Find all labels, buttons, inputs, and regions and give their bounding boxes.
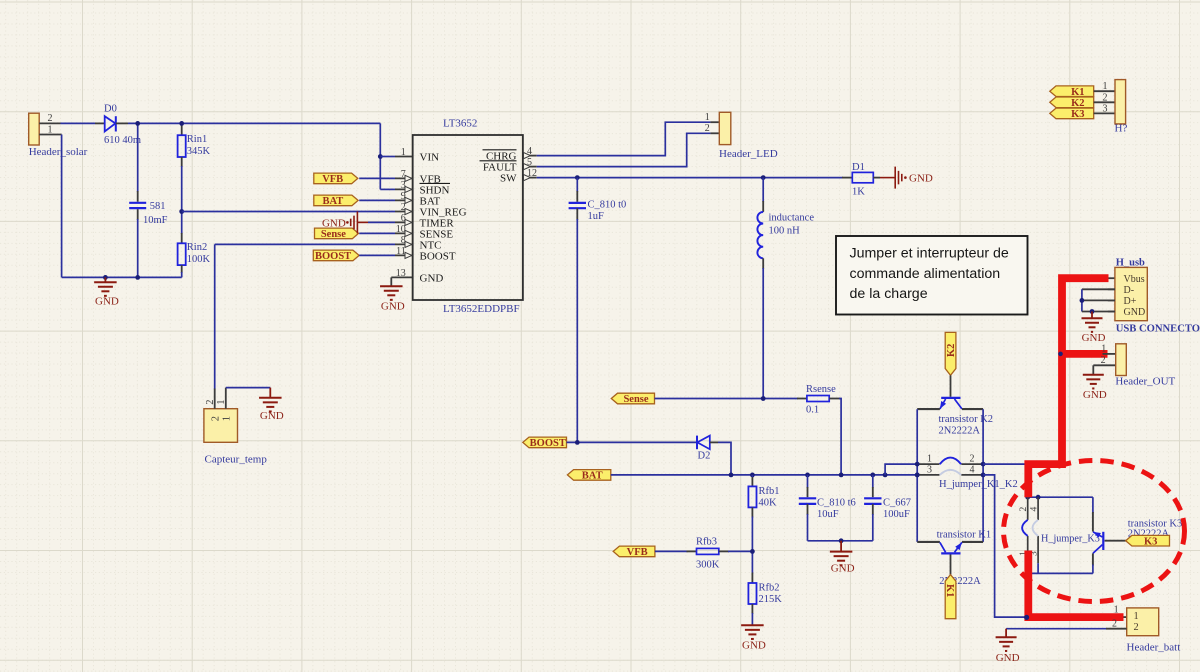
svg-text:C_667: C_667	[883, 498, 911, 509]
svg-text:C_810 t0: C_810 t0	[588, 199, 627, 210]
svg-text:GND: GND	[1124, 307, 1146, 318]
svg-text:Capteur_temp: Capteur_temp	[205, 454, 268, 466]
svg-text:2: 2	[1019, 507, 1029, 512]
svg-text:D+: D+	[1124, 296, 1137, 307]
svg-text:Rin1: Rin1	[187, 134, 207, 145]
svg-text:1: 1	[705, 112, 710, 123]
svg-text:GND: GND	[95, 296, 119, 308]
svg-text:2: 2	[970, 453, 975, 464]
svg-text:H_jumper_K1_K2: H_jumper_K1_K2	[939, 479, 1018, 490]
svg-text:3: 3	[927, 464, 932, 475]
svg-text:D1: D1	[852, 162, 865, 173]
svg-text:GND: GND	[260, 410, 284, 422]
svg-text:inductance: inductance	[769, 213, 815, 224]
svg-text:11: 11	[396, 246, 406, 257]
svg-text:transistor K2: transistor K2	[939, 414, 994, 425]
svg-text:VIN: VIN	[420, 151, 440, 163]
svg-text:Vbus: Vbus	[1124, 274, 1145, 285]
svg-text:100 nH: 100 nH	[769, 226, 801, 237]
svg-text:GND: GND	[996, 652, 1020, 664]
svg-text:Jumper et interrupteur de: Jumper et interrupteur de	[850, 246, 1009, 262]
svg-text:0.1: 0.1	[806, 405, 819, 416]
svg-text:C_810 t6: C_810 t6	[817, 498, 856, 509]
svg-text:GND: GND	[322, 218, 346, 230]
svg-text:GND: GND	[1083, 389, 1107, 401]
svg-text:1: 1	[927, 453, 932, 464]
svg-text:610 40m: 610 40m	[104, 135, 141, 146]
svg-text:H_usb: H_usb	[1116, 257, 1145, 268]
svg-text:40K: 40K	[759, 497, 778, 508]
svg-text:LT3652: LT3652	[443, 118, 477, 130]
svg-text:VFB: VFB	[627, 547, 648, 558]
svg-text:K1: K1	[1071, 87, 1084, 98]
svg-text:D2: D2	[698, 451, 711, 462]
svg-text:Header_solar: Header_solar	[29, 146, 88, 158]
svg-text:Rfb3: Rfb3	[696, 537, 717, 548]
svg-text:K2: K2	[1071, 98, 1084, 109]
svg-text:100uF: 100uF	[883, 509, 910, 520]
svg-text:2: 2	[1103, 92, 1108, 103]
svg-text:13: 13	[396, 268, 406, 279]
svg-text:GND: GND	[909, 173, 933, 185]
svg-text:4: 4	[1029, 507, 1039, 512]
svg-text:300K: 300K	[696, 559, 720, 570]
svg-text:1K: 1K	[852, 187, 865, 198]
svg-text:10uF: 10uF	[817, 509, 839, 520]
svg-text:2N2222A: 2N2222A	[939, 426, 981, 437]
svg-text:GND: GND	[381, 301, 405, 313]
svg-text:Rfb2: Rfb2	[759, 582, 780, 593]
svg-text:GND: GND	[420, 272, 444, 284]
svg-text:BOOST: BOOST	[530, 438, 566, 449]
svg-text:Rin2: Rin2	[187, 242, 207, 253]
svg-text:2: 2	[211, 416, 222, 421]
svg-text:10: 10	[396, 224, 406, 235]
svg-text:de la charge: de la charge	[850, 286, 928, 302]
svg-text:1uF: 1uF	[588, 211, 605, 222]
svg-text:2: 2	[205, 400, 216, 405]
svg-text:100K: 100K	[187, 254, 211, 265]
svg-text:581: 581	[150, 201, 166, 212]
svg-text:2: 2	[1134, 622, 1139, 633]
svg-text:2: 2	[1101, 355, 1106, 366]
svg-text:BOOST: BOOST	[420, 250, 456, 262]
svg-text:Header_OUT: Header_OUT	[1115, 376, 1175, 388]
svg-text:Sense: Sense	[321, 229, 346, 240]
svg-text:USB CONNECTOR: USB CONNECTOR	[1116, 324, 1200, 335]
svg-text:4: 4	[970, 464, 975, 475]
svg-text:1: 1	[216, 400, 227, 405]
svg-text:1: 1	[1101, 344, 1106, 355]
svg-text:BAT: BAT	[322, 196, 343, 207]
svg-text:SW: SW	[500, 173, 517, 185]
svg-text:H?: H?	[1115, 123, 1128, 135]
svg-text:1: 1	[1114, 605, 1119, 616]
svg-text:H_jumper_K3: H_jumper_K3	[1041, 533, 1100, 544]
svg-text:GND: GND	[742, 640, 766, 652]
svg-text:2: 2	[1112, 618, 1117, 629]
svg-text:BAT: BAT	[582, 471, 603, 482]
svg-text:K2: K2	[946, 344, 957, 357]
svg-text:Header_LED: Header_LED	[719, 148, 778, 160]
svg-text:LT3652EDDPBF: LT3652EDDPBF	[443, 303, 520, 315]
svg-text:1: 1	[222, 416, 233, 421]
svg-text:2: 2	[705, 123, 710, 134]
svg-text:D-: D-	[1124, 285, 1135, 296]
svg-text:Sense: Sense	[623, 394, 648, 405]
svg-text:transistor K1: transistor K1	[937, 530, 992, 541]
svg-text:VFB: VFB	[322, 174, 343, 185]
svg-text:1: 1	[401, 147, 406, 158]
svg-text:D0: D0	[104, 104, 117, 115]
svg-text:GND: GND	[831, 563, 855, 575]
svg-text:BOOST: BOOST	[315, 251, 351, 262]
svg-text:Rfb1: Rfb1	[759, 486, 780, 497]
svg-text:GND: GND	[1082, 332, 1106, 344]
svg-text:2: 2	[48, 113, 53, 124]
svg-text:commande alimentation: commande alimentation	[850, 266, 1001, 282]
svg-text:K1: K1	[944, 584, 955, 597]
svg-text:10mF: 10mF	[143, 215, 168, 226]
svg-text:Header_batt: Header_batt	[1127, 641, 1181, 653]
svg-text:215K: 215K	[759, 594, 783, 605]
svg-text:1: 1	[48, 124, 53, 135]
svg-text:1: 1	[1103, 81, 1108, 92]
svg-text:K3: K3	[1144, 536, 1157, 547]
svg-text:3: 3	[1103, 103, 1108, 114]
svg-text:K3: K3	[1071, 109, 1084, 120]
svg-text:1: 1	[1134, 611, 1139, 622]
svg-text:Rsense: Rsense	[806, 384, 836, 395]
svg-text:345K: 345K	[187, 146, 211, 157]
